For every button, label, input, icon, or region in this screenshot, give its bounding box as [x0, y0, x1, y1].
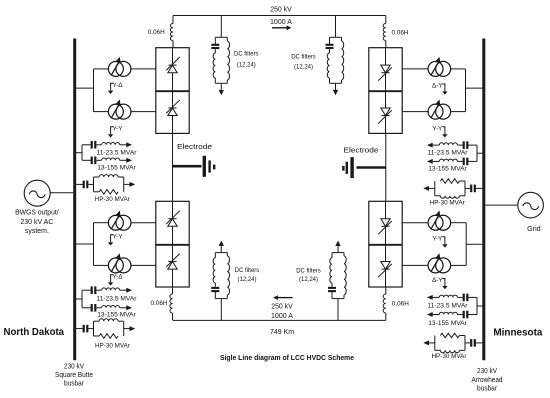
- smoothing reactor 0.06H bottom-right: [385, 287, 387, 294]
- svg-text:250 kV: 250 kV: [270, 5, 292, 14]
- svg-text:DC filters: DC filters: [296, 267, 321, 274]
- filter bracket: [476, 297, 478, 314]
- DC filter bottom-left: [211, 241, 229, 321]
- wire busbar to filter bracket: [75, 152, 82, 154]
- svg-text:0.06H: 0.06H: [148, 29, 165, 36]
- left electrode line: [173, 165, 202, 168]
- wire between right valve groups: [385, 133, 387, 201]
- wire right busbar to Grid source: [485, 204, 518, 206]
- svg-text:0.06H: 0.06H: [151, 300, 168, 307]
- power-flow arrow right: [272, 27, 288, 29]
- svg-text:11-23.5 MVAr: 11-23.5 MVAr: [428, 303, 469, 310]
- svg-text:Y-Y: Y-Y: [112, 126, 123, 133]
- filter bracket: [81, 290, 83, 308]
- wire bracket to transformer: [451, 111, 466, 113]
- 12-pulse valve group upper-right (thyristors): [369, 48, 402, 134]
- svg-text:busbar: busbar: [477, 385, 498, 392]
- power-flow arrow left: [278, 297, 293, 299]
- lower-left HP filter: [75, 319, 136, 339]
- converter transformer: [428, 57, 451, 77]
- right electrode (ground) symbol: [342, 157, 354, 178]
- shunt filter 13-155 MVAr: [82, 157, 132, 165]
- wire transformer to valve group: [131, 68, 156, 70]
- svg-text:(12,24): (12,24): [238, 276, 257, 283]
- filter bracket: [81, 145, 83, 161]
- svg-text:Electrode: Electrode: [177, 142, 212, 151]
- svg-text:Δ-Y: Δ-Y: [432, 83, 443, 90]
- DC filter top-right: [326, 16, 344, 96]
- svg-text:230 kV: 230 kV: [477, 368, 497, 375]
- smoothing reactor 0.06H top-right: [385, 16, 387, 24]
- converter transformer: [108, 211, 131, 231]
- neutral ground arrow: [108, 127, 113, 138]
- wire transformer to valve group: [131, 222, 156, 224]
- svg-text:Y-Y: Y-Y: [112, 234, 123, 241]
- svg-text:HP-30 MVAr: HP-30 MVAr: [95, 342, 131, 349]
- shunt filter 11-23.5 MVAr: [82, 286, 132, 294]
- transformer feeder bracket: [465, 69, 467, 112]
- wire busbar to transformer bracket: [466, 87, 484, 89]
- wire bracket to transformer: [94, 68, 109, 70]
- AC source G2 (Grid): [518, 192, 544, 218]
- svg-text:13-155 MVAr: 13-155 MVAr: [428, 166, 467, 173]
- smoothing reactor 0.06H top-left: [172, 16, 174, 24]
- wire source to left busbar: [50, 192, 73, 194]
- svg-text:230 kV AC: 230 kV AC: [20, 217, 53, 226]
- svg-text:Δ-Y: Δ-Y: [432, 277, 443, 284]
- converter transformer: [108, 253, 131, 273]
- svg-text:Grid: Grid: [527, 224, 541, 233]
- converter transformer: [428, 99, 451, 119]
- shunt filter 13-155 MVAr: [427, 311, 477, 319]
- wire busbar to filter bracket: [477, 152, 484, 154]
- svg-text:11-23.5 MVAr: 11-23.5 MVAr: [97, 295, 138, 302]
- neutral ground arrow: [442, 279, 447, 290]
- wire transformer to valve group: [131, 111, 156, 113]
- neutral ground arrow: [108, 235, 113, 246]
- lower-right HP filter: [423, 333, 484, 353]
- filter bracket: [476, 145, 478, 161]
- svg-text:(12,24): (12,24): [294, 63, 313, 70]
- svg-text:11-23.5 MVAr: 11-23.5 MVAr: [97, 149, 138, 156]
- svg-text:HP-30 MVAr: HP-30 MVAr: [432, 353, 468, 360]
- svg-text:busbar: busbar: [64, 381, 85, 388]
- right electrode line: [357, 166, 386, 169]
- neutral ground arrow: [108, 83, 113, 94]
- wire between left valve groups: [172, 133, 174, 201]
- right busbar (230 kV Arrowhead): [482, 39, 485, 361]
- svg-text:Arrowhead: Arrowhead: [472, 377, 503, 384]
- svg-text:HP-30 MVAr: HP-30 MVAr: [95, 196, 131, 203]
- transformer feeder bracket: [93, 69, 95, 112]
- svg-text:DC filters: DC filters: [235, 267, 260, 274]
- wire valve group to transformer: [402, 68, 428, 70]
- svg-text:DC filters: DC filters: [234, 50, 259, 57]
- svg-text:BWGS output/: BWGS output/: [15, 208, 59, 217]
- svg-text:749 Km: 749 Km: [270, 327, 294, 336]
- svg-text:230 kV: 230 kV: [64, 363, 84, 370]
- svg-text:11-23.5 MVAr: 11-23.5 MVAr: [428, 149, 469, 156]
- svg-text:(12,24): (12,24): [237, 61, 256, 68]
- converter transformer: [428, 211, 451, 231]
- svg-text:250 kV: 250 kV: [271, 301, 293, 310]
- 12-pulse valve group lower-right (thyristors): [369, 201, 402, 287]
- left busbar (230 kV Square Butte): [73, 39, 76, 361]
- neutral ground arrow: [442, 127, 447, 138]
- wire busbar to filter bracket: [477, 305, 484, 307]
- wire valve group to transformer: [402, 264, 428, 266]
- upper-right HP filter: [423, 179, 484, 199]
- svg-text:Sigle Line diagram of LCC HVDC: Sigle Line diagram of LCC HVDC Scheme: [220, 353, 354, 362]
- top DC line 250 kV: [173, 15, 386, 17]
- AC source G1 (BWGS): [24, 180, 50, 206]
- bottom DC line 250 kV: [173, 319, 386, 321]
- svg-text:0.06H: 0.06H: [392, 30, 409, 37]
- shunt filter 11-23.5 MVAr: [427, 141, 477, 149]
- shunt filter 13-155 MVAr: [427, 158, 477, 166]
- svg-text:Y-Δ: Y-Δ: [112, 82, 123, 89]
- converter transformer: [108, 99, 131, 119]
- svg-text:HP-30 MVAr: HP-30 MVAr: [430, 200, 466, 207]
- neutral ground arrow: [442, 84, 447, 95]
- wire bracket to transformer: [451, 264, 467, 266]
- shunt filter 11-23.5 MVAr: [82, 141, 132, 149]
- 12-pulse valve group upper-left (thyristors): [156, 48, 189, 134]
- wire busbar to transformer bracket: [75, 243, 94, 245]
- wire busbar to transformer bracket: [75, 87, 94, 89]
- converter transformer: [108, 57, 131, 77]
- svg-text:1000 A: 1000 A: [270, 17, 292, 26]
- shunt filter 13-155 MVAr: [82, 304, 132, 312]
- shunt filter 11-23.5 MVAr: [427, 294, 477, 302]
- svg-text:Electrode: Electrode: [344, 145, 379, 154]
- svg-text:(12,24): (12,24): [299, 276, 318, 283]
- upper-left HP filter: [75, 175, 136, 195]
- svg-text:North Dakota: North Dakota: [4, 326, 65, 338]
- wire bracket to transformer: [451, 68, 466, 70]
- neutral ground arrow: [108, 275, 113, 286]
- svg-text:0.06H: 0.06H: [392, 301, 409, 308]
- svg-text:Y-Y: Y-Y: [432, 236, 443, 243]
- svg-text:Y-Δ: Y-Δ: [112, 274, 123, 281]
- svg-text:Y-Y: Y-Y: [432, 126, 443, 133]
- wire busbar to filter bracket: [75, 298, 82, 300]
- transformer feeder bracket: [465, 223, 467, 266]
- svg-text:13-155 MVAr: 13-155 MVAr: [97, 165, 136, 172]
- wire bracket to transformer: [94, 222, 109, 224]
- svg-text:system.: system.: [25, 226, 49, 235]
- 12-pulse valve group lower-left (thyristors): [156, 201, 189, 287]
- wire valve group to transformer: [402, 222, 428, 224]
- neutral ground arrow: [442, 237, 447, 248]
- DC filter top-left: [211, 16, 229, 96]
- wire busbar to transformer bracket: [466, 243, 484, 245]
- svg-text:Square Butte: Square Butte: [55, 372, 93, 379]
- svg-text:Minnesota: Minnesota: [493, 327, 542, 339]
- wire bracket to transformer: [94, 111, 109, 113]
- wire bracket to transformer: [451, 222, 467, 224]
- smoothing reactor 0.06H bottom-left: [172, 287, 174, 294]
- svg-text:13-155 MVAr: 13-155 MVAr: [97, 312, 136, 319]
- DC filter bottom-right: [328, 241, 346, 321]
- svg-text:13-155 MVAr: 13-155 MVAr: [428, 320, 467, 327]
- svg-text:1000 A: 1000 A: [271, 311, 293, 320]
- transformer feeder bracket: [93, 223, 95, 266]
- wire bracket to transformer: [94, 264, 109, 266]
- left electrode (ground) symbol: [203, 156, 216, 177]
- converter transformer: [428, 253, 451, 273]
- wire transformer to valve group: [131, 264, 156, 266]
- wire valve group to transformer: [402, 111, 428, 113]
- svg-text:DC filters: DC filters: [291, 54, 316, 61]
